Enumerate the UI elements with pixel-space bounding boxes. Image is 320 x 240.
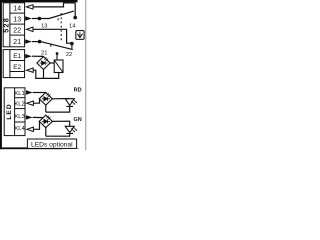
LED module box bbox=[4, 88, 25, 136]
terminal 14 cell line bbox=[10, 12, 25, 14]
wire row 21 bbox=[32, 41, 42, 43]
LED bridge diamond D2 bbox=[39, 93, 52, 106]
svg-text:22: 22 bbox=[66, 52, 72, 58]
LED RD bbox=[65, 99, 74, 107]
actuator box bbox=[76, 31, 84, 40]
terminal 13 cell line bbox=[10, 23, 25, 25]
connector arrow filled KL3 bbox=[26, 115, 33, 119]
wire KL4 return bbox=[33, 121, 39, 129]
svg-text:LEDs optional: LEDs optional bbox=[31, 141, 73, 148]
LED symbol inside D3 bbox=[42, 119, 50, 123]
LED emission arrows D2 bbox=[47, 93, 51, 97]
actuator symbol bbox=[77, 32, 82, 37]
wire D2 to LED RD bbox=[52, 98, 69, 100]
wire D3 bottom stub bbox=[45, 128, 47, 137]
svg-text:14: 14 bbox=[13, 5, 21, 12]
svg-text:RD: RD bbox=[74, 87, 82, 93]
connector arrow filled row 13 bbox=[25, 16, 32, 20]
terminal block E box bbox=[3, 50, 24, 78]
contact 13-14 right terminal drop bbox=[74, 3, 76, 17]
svg-text:13: 13 bbox=[13, 16, 21, 23]
wire KL3 bbox=[33, 116, 44, 118]
wire E2 return bbox=[33, 70, 59, 78]
svg-text:14: 14 bbox=[69, 24, 75, 30]
svg-text:21: 21 bbox=[41, 51, 47, 57]
connector arrow filled KL1 bbox=[26, 90, 33, 94]
connector arrow filled row 21 bbox=[25, 39, 32, 43]
svg-text:LED: LED bbox=[6, 103, 13, 119]
wire RD return bbox=[46, 106, 70, 112]
wire D3 to LED GN bbox=[52, 121, 69, 126]
wire D2 bottom stub bbox=[45, 105, 47, 112]
LED bridge diamond D1 bbox=[37, 57, 50, 70]
terminal E2 cell line bbox=[10, 71, 25, 73]
svg-text:KL1: KL1 bbox=[14, 91, 24, 97]
frame top border bbox=[0, 0, 78, 2]
varistor R1 bbox=[54, 60, 63, 73]
contact 21-22 movable arm bbox=[42, 42, 73, 50]
wire KL1 bbox=[33, 92, 46, 94]
connector arrow open KL4 bbox=[27, 127, 34, 131]
terminal block 528 box bbox=[3, 3, 24, 47]
junction dot contact 13-14 bbox=[73, 16, 77, 20]
LEDs optional box bbox=[27, 139, 76, 148]
connector arrow open row 22 bbox=[26, 27, 33, 31]
junction dot contact 21-22 bbox=[70, 42, 74, 46]
LED symbol inside D1 bbox=[40, 61, 48, 65]
connector arrow open row 14 bbox=[26, 5, 33, 9]
svg-text:E2: E2 bbox=[13, 64, 21, 71]
mechanical link dashed bbox=[60, 13, 62, 42]
wire D1 bottom stub bbox=[43, 70, 45, 79]
junction dot row 13 bbox=[38, 17, 42, 21]
contact 13-14 fixed tick bbox=[57, 18, 59, 20]
LED emission arrows D1 bbox=[44, 57, 48, 61]
contact 21-22 terminal stub bbox=[71, 44, 73, 49]
connector arrow filled E1 bbox=[25, 54, 32, 58]
junction dot row 21 bbox=[38, 40, 42, 44]
terminal block E divider bbox=[9, 50, 11, 78]
wire row 22 bbox=[33, 29, 71, 43]
wire D1 to varistor bbox=[50, 62, 54, 64]
varistor stub terminal square bbox=[56, 52, 59, 55]
connector arrow open KL2 bbox=[27, 101, 34, 105]
svg-text:22: 22 bbox=[13, 28, 21, 35]
terminal E1 cell line bbox=[10, 60, 25, 62]
svg-text:528: 528 bbox=[1, 17, 10, 33]
varistor diagonal bbox=[54, 60, 63, 72]
page edge gray bottom-right bbox=[60, 148, 79, 149]
terminal KL1 cell line bbox=[15, 97, 25, 99]
LED GN emission arrows bbox=[71, 127, 76, 132]
wire E1 bbox=[32, 55, 44, 57]
wire KL2 return bbox=[33, 99, 39, 103]
svg-text:21: 21 bbox=[13, 39, 21, 46]
svg-text:KL4: KL4 bbox=[14, 126, 25, 132]
page edge gray right bbox=[85, 0, 86, 150]
LED symbol inside D2 bbox=[42, 97, 50, 101]
terminal KL3 cell line bbox=[15, 121, 25, 123]
contact 21-22 fixed tick bbox=[50, 45, 52, 47]
svg-text:KL2: KL2 bbox=[14, 101, 24, 107]
svg-text:KL3: KL3 bbox=[14, 114, 25, 120]
terminal block 528 divider bbox=[9, 3, 11, 47]
svg-text:GN: GN bbox=[73, 117, 81, 123]
terminal 22 cell line bbox=[10, 34, 25, 36]
wire row 13 bbox=[32, 18, 50, 20]
frame left border bbox=[0, 0, 2, 149]
frame bottom border bbox=[0, 147, 62, 149]
LED module divider bbox=[14, 88, 16, 136]
wire row 14 bbox=[33, 3, 75, 7]
LED emission arrows D3 bbox=[47, 116, 51, 120]
LED RD emission arrows bbox=[71, 99, 76, 104]
LED GN bbox=[65, 126, 74, 133]
LED bridge diamond D3 bbox=[39, 115, 52, 128]
contact 13-14 movable arm bbox=[49, 11, 74, 18]
varistor top stub bbox=[56, 54, 58, 60]
connector arrow open E2 bbox=[27, 68, 34, 72]
svg-text:E1: E1 bbox=[13, 53, 21, 60]
wire GN return bbox=[46, 133, 70, 136]
terminal KL2 cell line bbox=[15, 108, 25, 110]
